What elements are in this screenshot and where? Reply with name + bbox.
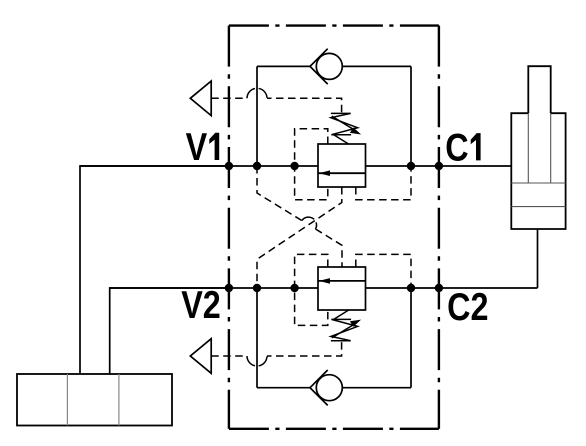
wire: top bypass line right segment	[342, 65, 411, 67]
svg-text:V: V	[186, 125, 208, 168]
pilot line: cross line D1 from V1 node to CB2 (dashed, hop at crossing)	[257, 166, 342, 267]
pilot line: CB1 left bracket (dashed)	[295, 129, 328, 200]
wire: V2 line to pump block	[110, 288, 229, 374]
pilot line: CB2 left bracket (dashed)	[295, 254, 328, 325]
node dot C1-border	[435, 162, 443, 170]
wire: bottom bypass line right segment	[342, 387, 411, 389]
node dot V1-border	[225, 162, 233, 170]
enclosure boundary right (dash-dot)	[438, 26, 440, 429]
counterbalance valve CB1 body	[318, 144, 366, 187]
enclosure boundary bottom (dash-dot)	[229, 428, 439, 430]
pilot line: CB2 right loop to node (dashed)	[356, 254, 411, 288]
node dot V1-left riser	[253, 162, 261, 170]
cylinder rod (outside)	[528, 66, 550, 113]
wire: top bypass line left segment	[257, 65, 310, 67]
port label V1	[186, 125, 220, 168]
wire: V1 line to pump block	[80, 166, 229, 374]
pilot line: CB2 spring drain (dashed, hop over riser)	[211, 340, 341, 366]
check valve CV1 circle	[316, 53, 342, 79]
port label C1	[445, 126, 480, 169]
drain symbol triangle T1	[190, 81, 211, 116]
pilot line: cross line D2 from CB1 to V2 node (dashed)	[257, 187, 342, 288]
enclosure boundary top (dash-dot)	[229, 24, 439, 26]
counterbalance valve CB2 body	[318, 267, 366, 310]
pump/control block	[17, 374, 172, 426]
wire: V2 main line left segment	[110, 287, 318, 289]
wire: right riser top bypass to V1 line	[410, 66, 412, 166]
enclosure boundary left (dash-dot)	[228, 26, 230, 429]
node dot V2-right riser	[407, 284, 415, 292]
wire: bottom bypass line left segment	[257, 387, 310, 389]
svg-text:C2: C2	[447, 285, 488, 328]
cylinder piston	[511, 183, 565, 207]
wire: V1 main line left segment	[80, 165, 318, 167]
pilot line: CB1 right loop to node (dashed)	[356, 166, 411, 200]
svg-text:V2: V2	[181, 283, 221, 326]
node dot V1-right riser	[407, 162, 415, 170]
check valve CV2 seat	[310, 370, 328, 405]
wire: V2 main line right segment	[366, 287, 538, 289]
check valve CV2 circle	[316, 375, 342, 401]
counterbalance valve CB2 adjustable spring	[331, 310, 361, 341]
counterbalance valve CB1 adjustable spring	[331, 113, 361, 144]
wire: right riser V2 line to bottom bypass	[410, 288, 412, 388]
check valve CV1 seat	[310, 49, 328, 84]
node dot V2-border	[225, 284, 233, 292]
wire: V1 main line right segment	[366, 165, 512, 167]
svg-text:C: C	[445, 126, 468, 169]
wire: left riser V1 line to top bypass	[256, 66, 258, 166]
drain symbol triangle T2	[190, 339, 211, 374]
cylinder rod (inside body)	[528, 113, 550, 183]
node dot C2-border	[435, 284, 443, 292]
wire: left riser V2 line to bottom bypass	[256, 288, 258, 388]
node dot V2-left riser	[253, 284, 261, 292]
node dot V1-pilot bracket	[290, 162, 298, 170]
pilot line: CB1 spring drain (dashed, hop over riser)	[211, 88, 341, 114]
wire: cylinder bottom port to C2 line	[537, 229, 539, 288]
counterbalance valve CB2 flow arrow	[318, 278, 366, 284]
counterbalance valve CB1 flow arrow	[318, 170, 366, 176]
node dot V2-pilot bracket	[290, 284, 298, 292]
cylinder body	[511, 113, 565, 229]
